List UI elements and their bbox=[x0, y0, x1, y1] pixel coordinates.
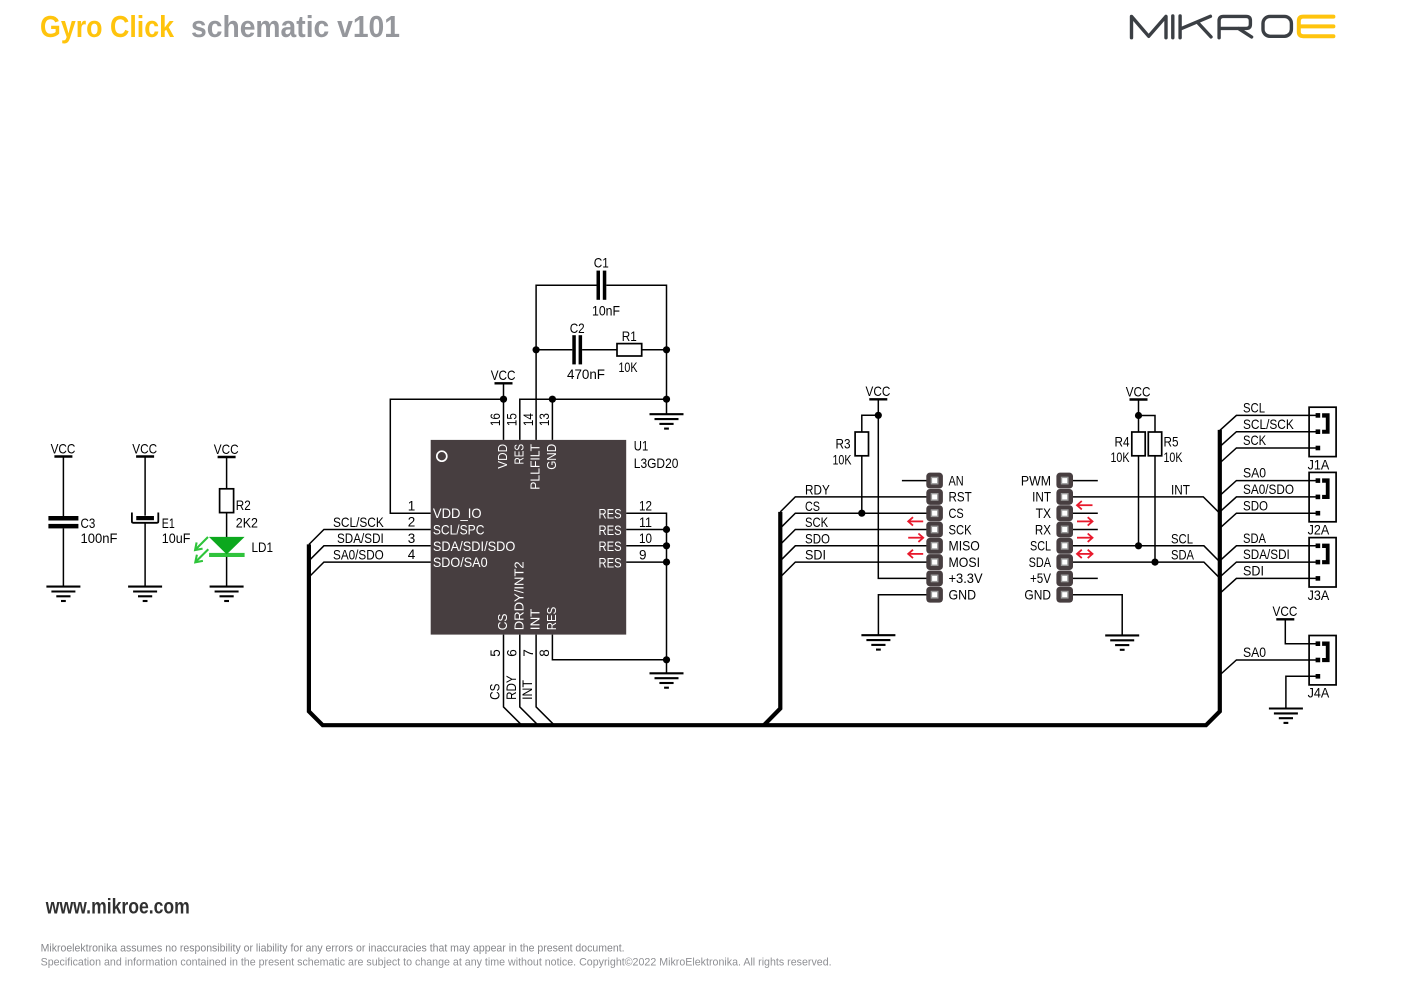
wire PWM stub bbox=[1073, 480, 1098, 482]
ground (LD1) bbox=[210, 587, 244, 601]
svg-text:VCC: VCC bbox=[214, 441, 239, 457]
svg-text:E1: E1 bbox=[162, 515, 175, 531]
svg-text:100nF: 100nF bbox=[81, 530, 118, 546]
svg-text:C1: C1 bbox=[594, 255, 609, 271]
wire R5 bottom bbox=[1154, 456, 1156, 562]
bus main loop bbox=[309, 430, 1220, 725]
capacitor C2 plates bbox=[572, 335, 582, 364]
svg-text:10nF: 10nF bbox=[592, 302, 620, 318]
resistor R3 body bbox=[855, 432, 868, 456]
junction R1/C1 bbox=[663, 346, 670, 353]
svg-text:PWM: PWM bbox=[1021, 472, 1051, 488]
power flag VCC (J4A) bbox=[1273, 603, 1298, 619]
wire R4 bottom bbox=[1138, 456, 1140, 546]
svg-text:10K: 10K bbox=[1111, 449, 1130, 465]
wire LD1 to ground bbox=[226, 557, 228, 587]
svg-text:SA0: SA0 bbox=[1243, 465, 1266, 481]
svg-text:Specification and information: Specification and information contained … bbox=[41, 957, 832, 969]
svg-text:470nF: 470nF bbox=[567, 366, 605, 382]
junction R4/SCL bbox=[1135, 542, 1142, 549]
wire VCC to E1 bbox=[144, 457, 146, 516]
svg-text:4: 4 bbox=[408, 547, 416, 562]
power flag VCC (E1) bbox=[132, 440, 157, 456]
ground (U1 RES) bbox=[650, 673, 684, 687]
junction pin10 bbox=[663, 542, 670, 549]
arrow TX out bbox=[1077, 517, 1093, 525]
svg-text:9: 9 bbox=[639, 547, 647, 562]
svg-text:RES: RES bbox=[511, 444, 526, 465]
wire GND h2 bbox=[1073, 595, 1122, 636]
svg-text:RES: RES bbox=[599, 538, 622, 554]
wire E1 to ground bbox=[144, 523, 146, 587]
wire R3 bottom bbox=[861, 456, 863, 513]
svg-text:RES: RES bbox=[599, 522, 622, 538]
wire VCC to C3 bbox=[62, 457, 64, 517]
jumper J1A bbox=[1309, 407, 1336, 456]
svg-text:SDI: SDI bbox=[1243, 563, 1264, 579]
svg-text:14: 14 bbox=[521, 413, 536, 426]
svg-text:RES: RES bbox=[544, 607, 559, 631]
jumper J3A bbox=[1309, 538, 1336, 587]
svg-text:6: 6 bbox=[505, 649, 520, 657]
svg-text:SCL: SCL bbox=[1171, 530, 1193, 546]
connector P1 mikroBUS header bbox=[926, 473, 943, 603]
wire pin6 RDY bbox=[520, 635, 538, 726]
svg-text:VCC: VCC bbox=[491, 367, 516, 383]
IC U1 pin1 marker bbox=[437, 451, 447, 461]
wire RX stub bbox=[1073, 529, 1098, 531]
arrow SCK in bbox=[908, 517, 923, 525]
junction pin9 bbox=[663, 559, 670, 566]
svg-text:Gyro Click: Gyro Click bbox=[40, 9, 175, 44]
resistor R2 body bbox=[220, 489, 234, 513]
svg-text:R1: R1 bbox=[622, 328, 637, 344]
junction R3/CS bbox=[858, 510, 865, 517]
power flag VCC (C3) bbox=[51, 440, 76, 456]
svg-text:10K: 10K bbox=[619, 359, 638, 375]
wire SCK to J1A bbox=[1220, 448, 1318, 463]
IC U1 left pin names bbox=[433, 505, 516, 570]
IC U1 left pin numbers bbox=[408, 498, 416, 562]
IC U1 bottom pin names bbox=[495, 561, 559, 630]
wire VCC drop U1 bbox=[503, 383, 505, 399]
svg-text:3: 3 bbox=[408, 531, 416, 546]
svg-text:10uF: 10uF bbox=[162, 530, 191, 546]
capacitor E1 plates bbox=[132, 513, 158, 523]
svg-text:Mikroelektronika assumes no re: Mikroelektronika assumes no responsibili… bbox=[41, 943, 625, 955]
svg-text:AN: AN bbox=[949, 472, 964, 488]
wire SCL/SCK to J1A bbox=[1220, 432, 1318, 447]
svg-text:SDI: SDI bbox=[805, 547, 826, 563]
wire SDO to J2A bbox=[1220, 513, 1318, 528]
wire pin12 RES bbox=[626, 513, 666, 660]
svg-text:CS: CS bbox=[495, 613, 510, 630]
power flag VCC (R4R5) bbox=[1126, 383, 1151, 399]
wire pin16 VDD bbox=[503, 399, 505, 440]
svg-text:VCC: VCC bbox=[1126, 383, 1151, 399]
svg-text:10K: 10K bbox=[1164, 449, 1183, 465]
svg-text:VDD: VDD bbox=[495, 444, 510, 469]
svg-text:SDA/SDI/SDO: SDA/SDI/SDO bbox=[433, 538, 516, 554]
svg-text:SA0/SDO: SA0/SDO bbox=[333, 547, 384, 563]
svg-text:INT: INT bbox=[1032, 489, 1051, 505]
svg-text:SDA: SDA bbox=[1029, 554, 1052, 570]
wire pin14 PLLFILT bbox=[535, 350, 537, 440]
ground (header2) bbox=[1105, 635, 1139, 649]
wire C2 left bbox=[536, 349, 572, 351]
svg-text:CS: CS bbox=[487, 684, 503, 700]
svg-text:PLLFILT: PLLFILT bbox=[528, 444, 543, 490]
svg-text:SCK: SCK bbox=[805, 514, 829, 530]
wire R5 top bbox=[1139, 416, 1156, 433]
svg-text:+3.3V: +3.3V bbox=[949, 570, 984, 586]
svg-text:7: 7 bbox=[521, 649, 536, 657]
svg-text:8: 8 bbox=[537, 649, 552, 657]
svg-text:DRDY/INT2: DRDY/INT2 bbox=[511, 561, 526, 630]
svg-text:VCC: VCC bbox=[51, 440, 76, 456]
wire VCC to J4A bbox=[1285, 619, 1318, 643]
svg-text:2: 2 bbox=[408, 515, 416, 530]
svg-text:CS: CS bbox=[949, 505, 964, 521]
svg-text:GND: GND bbox=[544, 444, 559, 470]
wire C3 to ground bbox=[62, 528, 64, 586]
svg-text:www.mikroe.com: www.mikroe.com bbox=[45, 896, 190, 919]
wire SCL net bbox=[1073, 546, 1220, 562]
svg-text:RST: RST bbox=[949, 489, 973, 505]
svg-text:RDY: RDY bbox=[805, 481, 830, 497]
svg-text:SDO: SDO bbox=[1243, 497, 1268, 513]
svg-text:SCL/SPC: SCL/SPC bbox=[433, 522, 485, 538]
wire R4 top bbox=[1138, 416, 1140, 433]
labels P1 pins bbox=[949, 472, 984, 602]
svg-text:LD1: LD1 bbox=[252, 539, 274, 555]
junction VCC R4 bbox=[1135, 412, 1142, 419]
wire pin8 RES gnd bbox=[552, 635, 666, 660]
connector P2 mikroBUS header bbox=[1056, 473, 1073, 603]
wire +5V stub bbox=[1073, 577, 1098, 579]
svg-text:U1: U1 bbox=[634, 437, 649, 453]
svg-text:10K: 10K bbox=[833, 451, 852, 467]
IC U1 top pin names bbox=[495, 444, 559, 490]
wire R1 right bbox=[642, 349, 667, 351]
svg-text:1: 1 bbox=[408, 498, 416, 513]
wire SDA net bbox=[1073, 562, 1220, 578]
capacitor C3 plates bbox=[48, 516, 78, 528]
jumper J2A bbox=[1309, 472, 1336, 521]
wire TX stub bbox=[1073, 512, 1098, 514]
svg-text:GND: GND bbox=[1024, 587, 1051, 603]
capacitor C1 plates bbox=[597, 271, 607, 300]
wire VCC to 3.3V bbox=[878, 415, 926, 578]
wire pin7 INT bbox=[536, 635, 554, 726]
svg-text:C3: C3 bbox=[81, 515, 96, 531]
labels CS RDY INT bottom bbox=[487, 675, 536, 700]
arrow SCL bidir bbox=[1077, 550, 1093, 558]
svg-text:CS: CS bbox=[805, 498, 820, 514]
svg-text:R4: R4 bbox=[1115, 433, 1130, 449]
wire pin13 GND bbox=[551, 399, 553, 440]
wire SDI to J3A bbox=[1220, 578, 1318, 593]
wire SA0 to J4A bbox=[1220, 660, 1318, 675]
junction pin13 GND bbox=[549, 396, 556, 403]
junction VCC h1 bbox=[875, 412, 882, 419]
svg-text:SCL: SCL bbox=[1030, 538, 1051, 554]
svg-text:MOSI: MOSI bbox=[949, 554, 981, 570]
svg-text:L3GD20: L3GD20 bbox=[634, 455, 679, 471]
MIKROE logo bbox=[1132, 16, 1334, 38]
svg-text:SDA: SDA bbox=[1243, 530, 1267, 546]
svg-text:SCK: SCK bbox=[1243, 432, 1267, 448]
power flag VCC (U1 VDD) bbox=[491, 367, 516, 383]
svg-text:SCL/SCK: SCL/SCK bbox=[1243, 416, 1294, 432]
svg-text:5: 5 bbox=[488, 649, 503, 657]
wire PLL gnd drop bbox=[666, 350, 668, 399]
svg-text:SA0: SA0 bbox=[1243, 644, 1266, 660]
svg-text:+5V: +5V bbox=[1030, 570, 1052, 586]
svg-text:SDA: SDA bbox=[1171, 547, 1195, 563]
svg-text:VCC: VCC bbox=[866, 383, 891, 399]
wire VCC drop h1 bbox=[877, 399, 879, 415]
wire RDY to RST bbox=[780, 497, 926, 512]
svg-text:SDA/SDI: SDA/SDI bbox=[337, 530, 384, 546]
svg-text:VDD_IO: VDD_IO bbox=[433, 505, 482, 521]
svg-text:R5: R5 bbox=[1164, 433, 1179, 449]
wire GND h1 bbox=[878, 595, 926, 636]
svg-text:11: 11 bbox=[639, 515, 652, 530]
svg-text:SCK: SCK bbox=[949, 521, 973, 537]
IC U1 body bbox=[431, 440, 627, 635]
wire INT net bbox=[1073, 497, 1220, 513]
svg-text:VCC: VCC bbox=[132, 440, 157, 456]
svg-text:J4A: J4A bbox=[1308, 685, 1330, 701]
wire SCK bbox=[780, 530, 926, 545]
junction VDD bbox=[500, 396, 507, 403]
arrow MOSI in bbox=[908, 550, 923, 558]
wire J4A gnd bbox=[1286, 676, 1318, 708]
ground (E1) bbox=[128, 587, 162, 601]
ground (C3) bbox=[46, 587, 80, 601]
wire SA0 to J2A bbox=[1220, 481, 1318, 496]
svg-text:12: 12 bbox=[639, 499, 652, 514]
wire SDA/SDI to J3A bbox=[1220, 562, 1318, 577]
power flag VCC (header1) bbox=[866, 383, 891, 399]
LED LD1 cathode bar bbox=[209, 553, 245, 557]
svg-text:C2: C2 bbox=[570, 320, 585, 336]
wire pin9 RES bbox=[626, 561, 666, 563]
wire VCC to R2 bbox=[226, 457, 228, 489]
svg-text:15: 15 bbox=[505, 413, 520, 426]
arrow RX out bbox=[1077, 534, 1093, 542]
svg-text:INT: INT bbox=[528, 609, 543, 631]
wire pin5 CS bbox=[504, 635, 522, 726]
svg-text:J2A: J2A bbox=[1308, 522, 1330, 538]
wire pin4 SA0/SDO bbox=[309, 562, 431, 577]
wire pin11 RES bbox=[626, 529, 666, 531]
IC U1 right pin numbers bbox=[639, 499, 652, 563]
wire SCL to J1A bbox=[1220, 415, 1318, 430]
svg-text:RES: RES bbox=[599, 555, 622, 571]
svg-text:2K2: 2K2 bbox=[236, 514, 258, 530]
svg-text:RDY: RDY bbox=[503, 675, 519, 700]
svg-text:J3A: J3A bbox=[1308, 587, 1330, 603]
bus mid branch bbox=[764, 512, 780, 725]
junction gnd right bbox=[663, 396, 670, 403]
wire R2 to LD1 bbox=[226, 513, 228, 538]
svg-text:GND: GND bbox=[949, 587, 977, 603]
svg-text:schematic v101: schematic v101 bbox=[191, 9, 400, 44]
junction pin11 bbox=[663, 526, 670, 533]
IC U1 bottom pin numbers bbox=[488, 649, 552, 657]
arrow MISO out bbox=[908, 534, 923, 542]
wire pin15 RES net bbox=[520, 399, 667, 440]
svg-text:SA0/SDO: SA0/SDO bbox=[1243, 481, 1294, 497]
svg-text:INT: INT bbox=[1171, 481, 1190, 497]
LED LD1 anode triangle bbox=[209, 537, 245, 555]
svg-text:R3: R3 bbox=[836, 436, 851, 452]
wire SA0/SDO to J2A bbox=[1220, 497, 1318, 512]
wire C2 to R1 bbox=[582, 349, 617, 351]
svg-text:13: 13 bbox=[537, 413, 552, 426]
svg-text:SCL: SCL bbox=[1243, 400, 1265, 416]
ground (PLL) bbox=[650, 414, 684, 428]
resistor R4 body bbox=[1132, 432, 1145, 456]
arrow INT in bbox=[1077, 501, 1093, 509]
ground (J4A) bbox=[1269, 709, 1303, 723]
svg-text:SCL/SCK: SCL/SCK bbox=[333, 514, 384, 530]
ground (header1) bbox=[861, 635, 895, 649]
wire SDI to MOSI bbox=[780, 562, 926, 577]
resistor R5 body bbox=[1148, 432, 1161, 456]
svg-text:TX: TX bbox=[1036, 505, 1052, 521]
wire pin10 RES bbox=[626, 545, 666, 547]
wire R3 top bbox=[862, 415, 879, 432]
svg-text:RES: RES bbox=[599, 506, 622, 522]
wire C1 right bbox=[606, 285, 666, 350]
wire SDO to MISO bbox=[780, 546, 926, 561]
svg-text:INT: INT bbox=[519, 680, 535, 700]
wire VCC drop R4 bbox=[1138, 400, 1140, 416]
wire C1 left bbox=[536, 285, 596, 350]
IC U1 top pin numbers bbox=[488, 413, 552, 426]
jumper J4A bbox=[1309, 636, 1336, 685]
wire CS bbox=[780, 513, 926, 528]
labels P2 pins bbox=[1021, 472, 1052, 602]
svg-text:RX: RX bbox=[1035, 521, 1052, 537]
svg-text:SDO/SA0: SDO/SA0 bbox=[433, 554, 488, 570]
svg-text:10: 10 bbox=[639, 531, 652, 546]
wire pin2 SCL/SCK bbox=[309, 530, 431, 545]
svg-text:J1A: J1A bbox=[1308, 456, 1330, 472]
power flag VCC (R2) bbox=[214, 441, 239, 457]
wire pin3 SDA/SDI bbox=[309, 546, 431, 561]
svg-text:SDO: SDO bbox=[805, 530, 830, 546]
junction pin8/gnd bbox=[663, 656, 670, 663]
wire VDD net bbox=[390, 399, 503, 513]
wire gnd stub right bbox=[666, 660, 668, 674]
svg-text:VCC: VCC bbox=[1273, 603, 1298, 619]
wire SDA to J3A bbox=[1220, 546, 1318, 561]
svg-text:R2: R2 bbox=[236, 497, 251, 513]
svg-text:16: 16 bbox=[488, 413, 503, 426]
junction C2/pin14 bbox=[533, 346, 540, 353]
svg-text:SDA/SDI: SDA/SDI bbox=[1243, 546, 1290, 562]
wire AN stub bbox=[902, 480, 927, 482]
resistor R1 body bbox=[617, 344, 642, 356]
junction R5/SDA bbox=[1151, 559, 1158, 566]
LED LD1 emission arrows bbox=[195, 537, 208, 562]
svg-text:MISO: MISO bbox=[949, 538, 980, 554]
IC U1 right pin names RES bbox=[599, 506, 622, 571]
